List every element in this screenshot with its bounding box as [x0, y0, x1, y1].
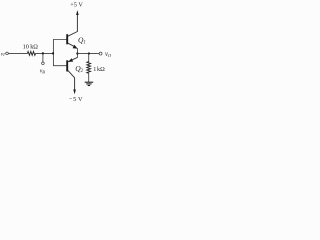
node vB terminal — [42, 62, 45, 65]
wire emitter join — [76, 48, 78, 58]
transistor Q1 emitter — [68, 43, 75, 47]
resistor R2 1 kOhm — [87, 62, 91, 74]
transistor Q1 emitter arrowhead — [73, 45, 78, 49]
svg-text:10kΩ: 10kΩ — [23, 43, 39, 50]
wire resistor to ground — [88, 73, 90, 82]
wire stub to vB terminal — [42, 53, 44, 62]
transistor Q2 emitter arrowhead (PNP) — [68, 58, 73, 62]
svg-text:Q1: Q1 — [78, 35, 86, 45]
power +5V arrowhead — [76, 10, 79, 15]
wire output — [77, 52, 99, 54]
node vI input terminal — [6, 52, 9, 55]
power -5V arrowhead — [73, 90, 76, 95]
svg-text:1kΩ: 1kΩ — [93, 66, 105, 73]
transistor Q1 collector — [68, 14, 78, 36]
transistor Q2 collector — [68, 70, 75, 90]
ground — [85, 81, 94, 83]
node resistor tap dot — [88, 52, 90, 54]
svg-text:vO: vO — [105, 51, 112, 58]
wire resistor to bus — [36, 52, 54, 54]
transistor Q2 emitter — [68, 57, 78, 61]
svg-text:vI: vI — [1, 51, 5, 57]
node B junction dot bus — [52, 52, 54, 54]
svg-text:Q2: Q2 — [75, 64, 83, 74]
transistor Q2 base bar — [66, 60, 68, 71]
node A junction dot — [42, 52, 44, 54]
svg-text:−5V: −5V — [69, 96, 83, 103]
wire to load resistor — [88, 53, 90, 62]
svg-text:+5V: +5V — [70, 2, 83, 9]
transistor Q1 base bar — [66, 34, 68, 44]
wire base bus vertical — [53, 40, 66, 66]
node vO terminal — [99, 52, 102, 55]
node output junction dot — [76, 52, 78, 54]
resistor R1 10 kOhm — [27, 52, 35, 56]
wire input to resistor — [8, 52, 27, 54]
svg-text:vB: vB — [40, 68, 46, 74]
